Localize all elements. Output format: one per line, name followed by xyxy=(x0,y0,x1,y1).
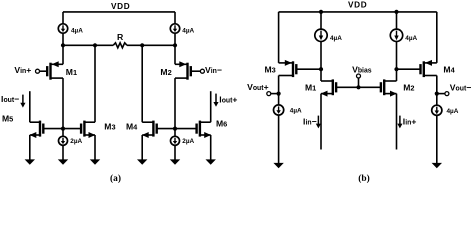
VDD label (a) xyxy=(111,2,130,11)
wire Vout+ stub xyxy=(271,93,279,95)
svg-text:(a): (a) xyxy=(110,173,121,184)
resistor R xyxy=(113,43,127,48)
wire M3 source to ground xyxy=(90,135,100,165)
wire M1 drain down xyxy=(62,78,64,129)
wire I2 to node B xyxy=(174,33,176,45)
terminal Vout+ xyxy=(267,92,271,96)
label M4 xyxy=(126,122,138,132)
label I2 4uA xyxy=(182,27,194,34)
label I6 4uA xyxy=(405,35,417,42)
label I8 4uA xyxy=(447,108,459,115)
svg-text:2µA: 2µA xyxy=(70,138,82,145)
svg-text:M1: M1 xyxy=(305,83,316,93)
wire I6 to M2 drain xyxy=(396,42,398,82)
label I1 4uA xyxy=(71,27,83,34)
label R xyxy=(117,32,124,42)
label Iout+ xyxy=(219,95,237,105)
label M5 xyxy=(2,113,13,123)
current source I8 4uA xyxy=(432,105,442,115)
terminal Vout- xyxy=(445,92,449,96)
transistor M1b xyxy=(321,79,336,96)
label M2 xyxy=(160,67,171,77)
svg-text:VDD: VDD xyxy=(348,1,367,10)
wire M4 gate xyxy=(397,68,421,70)
current source I7 4uA xyxy=(274,105,284,115)
label M4b xyxy=(443,64,455,74)
svg-text:M2: M2 xyxy=(403,83,414,93)
caption (a) xyxy=(110,173,121,184)
label Iin+ xyxy=(403,117,417,127)
svg-text:4µA: 4µA xyxy=(182,27,194,34)
node M4-gate tap dot xyxy=(394,67,398,71)
svg-text:4µA: 4µA xyxy=(290,108,302,115)
wire M4 drain up xyxy=(141,45,143,122)
wire M3 drain down to Vout+ xyxy=(278,76,280,94)
svg-text:M2: M2 xyxy=(160,67,171,77)
label M3b xyxy=(265,65,276,75)
wire resistor to node B xyxy=(127,44,175,46)
label I7 4uA xyxy=(290,108,302,115)
VDD rail (a) xyxy=(63,11,175,13)
wire Vin+ to M1 gate xyxy=(40,70,48,72)
transistor M2 xyxy=(175,61,191,79)
wire I4 to ground xyxy=(170,145,180,165)
label Vout+ xyxy=(247,82,268,92)
wire M5 drain up to Iout- stub xyxy=(29,91,31,122)
wire M2 gate to Vbias xyxy=(359,86,381,88)
wire M5 source to ground xyxy=(25,135,35,165)
node rail-I6 dot xyxy=(394,10,398,14)
node A junction dot xyxy=(61,43,65,47)
transistor M1 xyxy=(47,61,63,79)
svg-text:M3: M3 xyxy=(104,122,115,132)
wire I8 to ground xyxy=(432,115,442,168)
annotation arrow Iin+ xyxy=(397,116,402,129)
label I5 4uA xyxy=(330,35,342,42)
input terminal Vin- xyxy=(200,69,204,73)
annotation arrow Iout+ xyxy=(213,94,218,107)
wire VDD to I6 xyxy=(396,12,398,29)
wire Vout+ to I7 xyxy=(278,94,280,105)
node mirror-right gate dot xyxy=(173,127,177,131)
label M1 xyxy=(66,67,77,77)
label M2b xyxy=(403,83,414,93)
wire M2 drain down xyxy=(174,78,176,129)
svg-text:4µA: 4µA xyxy=(405,35,417,42)
label Vbias xyxy=(352,64,372,74)
wire VDD to M4 source xyxy=(436,12,438,63)
label Vin- xyxy=(205,65,222,75)
svg-text:M5: M5 xyxy=(2,113,13,123)
node M4-drain tap dot xyxy=(140,43,144,47)
wire M2 source down (Iin+) xyxy=(396,94,398,150)
wire Vbias stub xyxy=(358,78,360,87)
transistor M3 xyxy=(81,121,95,138)
transistor M4 xyxy=(142,121,157,138)
input terminal Vin+ xyxy=(36,69,40,73)
wire M4 source to ground xyxy=(137,135,147,165)
label Vout- xyxy=(450,82,471,92)
wire mirror node to I3 xyxy=(62,129,64,137)
transistor M3b xyxy=(279,60,297,77)
terminal Vbias xyxy=(357,74,361,78)
wire M3 drain up xyxy=(94,45,96,122)
annotation arrow Iin- xyxy=(316,116,321,129)
wire Vout- stub xyxy=(437,93,445,95)
svg-text:M3: M3 xyxy=(265,65,276,75)
wire M6 drain up to Iout+ stub xyxy=(210,91,212,122)
transistor M4b xyxy=(421,60,437,77)
wire VDD to current source I1 xyxy=(62,12,64,24)
wire I5 to M1 drain xyxy=(320,42,322,82)
svg-text:4µA: 4µA xyxy=(330,35,342,42)
current source I3 2uA xyxy=(59,136,68,145)
wire M1 source down (Iin-) xyxy=(320,94,322,150)
wire M3 gate xyxy=(296,68,321,70)
current source I6 4uA xyxy=(390,29,402,41)
wire node A to resistor xyxy=(63,44,113,46)
label Vin+ xyxy=(14,65,31,75)
svg-text:M4: M4 xyxy=(126,122,138,132)
wire mirror gate line right xyxy=(157,128,197,130)
label I3 2uA xyxy=(70,138,82,145)
node M3-gate tap dot xyxy=(319,67,323,71)
current source I5 4uA xyxy=(315,29,327,41)
label Iin- xyxy=(303,117,317,127)
node M3-drain tap dot xyxy=(93,43,97,47)
annotation arrow Iout- xyxy=(20,95,25,108)
transistor M6 xyxy=(197,121,211,138)
VDD label (b) xyxy=(348,1,367,10)
svg-text:R: R xyxy=(117,32,124,42)
wire node B to M2 source xyxy=(174,45,176,64)
node Vout+ dot xyxy=(277,92,281,96)
svg-text:(b): (b) xyxy=(358,173,369,184)
VDD rail (b) xyxy=(279,11,437,13)
wire M2 gate to Vin- xyxy=(191,70,200,72)
label M6 xyxy=(216,118,227,128)
node Vout- dot xyxy=(435,92,439,96)
svg-text:M1: M1 xyxy=(66,67,77,77)
wire VDD to current source I2 xyxy=(174,12,176,24)
caption (b) xyxy=(358,173,369,184)
wire Vout- to I8 xyxy=(436,94,438,106)
wire VDD to M3 source xyxy=(278,12,280,63)
node B junction dot xyxy=(173,43,177,47)
wire I7 to ground xyxy=(273,115,283,168)
label I4 2uA xyxy=(182,138,194,145)
label Iout- xyxy=(1,94,19,104)
svg-text:4µA: 4µA xyxy=(447,108,459,115)
wire VDD to I5 xyxy=(320,12,322,29)
node rail-I5 dot xyxy=(319,10,323,14)
svg-text:4µA: 4µA xyxy=(71,27,83,34)
current source I2 4uA xyxy=(170,24,179,33)
svg-text:M4: M4 xyxy=(443,64,455,74)
wire node A to M1 source xyxy=(62,45,64,64)
wire I1 to node A xyxy=(62,33,64,45)
wire M4 drain down to Vout- xyxy=(436,76,438,94)
node Vbias dot xyxy=(356,85,360,89)
current source I1 4uA xyxy=(58,24,67,33)
wire M1 gate to Vbias xyxy=(336,86,358,88)
transistor M5 xyxy=(30,121,44,138)
wire mirror node to I4 xyxy=(174,129,176,137)
wire I3 to ground xyxy=(58,145,68,165)
current source I4 2uA xyxy=(171,136,180,145)
svg-text:M6: M6 xyxy=(216,118,227,128)
node mirror-left gate dot xyxy=(61,127,65,131)
svg-text:VDD: VDD xyxy=(111,2,130,11)
transistor M2b xyxy=(381,79,397,96)
label M3 xyxy=(104,122,115,132)
wire M6 source to ground xyxy=(206,135,216,165)
label M1b xyxy=(305,83,316,93)
wire mirror gate line left xyxy=(43,128,81,130)
svg-text:2µA: 2µA xyxy=(182,138,194,145)
